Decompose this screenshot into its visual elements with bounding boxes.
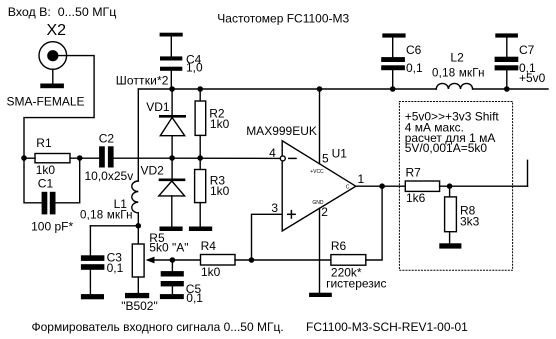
power rail right of L2 [473, 88, 548, 90]
node R8 tap [447, 183, 453, 189]
svg-text:100 pF*: 100 pF* [31, 219, 73, 233]
ground R5 [125, 293, 149, 298]
resistor R6 [331, 255, 366, 266]
svg-text:5k0 "A": 5k0 "A" [149, 241, 188, 255]
svg-text:GND: GND [312, 200, 324, 206]
node rail/pin5 [317, 86, 323, 92]
wiper arrow R5 [146, 257, 155, 264]
svg-text:L2: L2 [450, 50, 464, 64]
resistor R3 [199, 158, 201, 170]
ground C3 [81, 294, 104, 299]
svg-text:10,0x25v: 10,0x25v [85, 169, 134, 183]
svg-text:SMA-FEMALE: SMA-FEMALE [7, 95, 85, 109]
svg-text:0,18 мкГн: 0,18 мкГн [432, 67, 485, 79]
capacitor C7 [495, 33, 518, 37]
svg-text:5V/0,001A=5k0: 5V/0,001A=5k0 [405, 141, 488, 155]
title heading [217, 12, 349, 26]
dashed info box [399, 102, 512, 271]
svg-text:+VCC: +VCC [310, 169, 324, 175]
svg-text:VD1: VD1 [146, 100, 170, 114]
ground top C4 [160, 33, 183, 37]
node signal/VD [169, 155, 175, 161]
output stub up [527, 160, 529, 186]
label Schottky [116, 74, 169, 88]
svg-text:C2: C2 [99, 131, 115, 145]
label SMA-FEMALE [7, 95, 85, 109]
svg-text:3k3: 3k3 [460, 215, 480, 229]
wire R1 right to C2 [70, 157, 99, 159]
node rail/VD1 [169, 86, 175, 92]
resistor R2 [199, 89, 201, 101]
op-amp U1 [246, 124, 317, 138]
svg-text:1k0: 1k0 [201, 265, 221, 279]
svg-text:5: 5 [322, 152, 329, 166]
svg-text:Формирователь входного сигнала: Формирователь входного сигнала 0...50 МГ… [32, 320, 284, 334]
wire R6 right up to output [366, 186, 382, 260]
wire C1 left [24, 158, 42, 203]
wire +5v vertical to L1 [137, 89, 139, 181]
svg-text:1k0: 1k0 [210, 117, 230, 131]
capacitor C3 [89, 226, 91, 256]
inductor L2 [436, 83, 472, 89]
pin5 wire [319, 89, 321, 164]
svg-text:Шоттки*2: Шоттки*2 [116, 74, 169, 88]
title input label [8, 5, 117, 19]
wire node to pot [137, 226, 139, 244]
node after R1 [77, 155, 83, 161]
label B502 [121, 299, 158, 313]
diode VD2 [171, 158, 173, 181]
svg-text:R4: R4 [201, 239, 217, 253]
resistor R1 [35, 154, 70, 163]
node output/R6 [379, 183, 385, 189]
node rail/C7 [504, 86, 510, 92]
inductor L1 [132, 181, 139, 213]
node C5 tap [170, 257, 176, 263]
connector X2 label [47, 22, 67, 39]
wire L1 to node [137, 213, 139, 226]
svg-text:MAX999EUK: MAX999EUK [246, 124, 317, 138]
potentiometer R5 [132, 244, 144, 277]
capacitor C4 [170, 37, 172, 57]
wire C2 to VD junction [114, 157, 173, 159]
wire signal to pin4 [172, 157, 280, 159]
wire X2 stem [52, 69, 54, 83]
svg-text:R7: R7 [406, 166, 422, 180]
svg-text:FC1100-M3-SCH-REV1-00-01: FC1100-M3-SCH-REV1-00-01 [306, 320, 468, 334]
bottom captions [32, 320, 469, 334]
node rail/C6 [390, 86, 396, 92]
ground pin2 [309, 293, 332, 297]
capacitor C2 [99, 146, 105, 167]
capacitor C6 [382, 33, 405, 37]
svg-text:Вход В: 0...50 МГц: Вход В: 0...50 МГц [8, 5, 117, 19]
node pin3 tap [249, 257, 255, 263]
svg-text:C7: C7 [519, 43, 535, 57]
wire R4 to R6 [235, 259, 331, 261]
wire to pin3 [252, 214, 283, 260]
pin labels [269, 146, 364, 219]
capacitor C1 [42, 192, 48, 215]
wire output [356, 185, 406, 187]
connector X2 [39, 42, 67, 70]
svg-text:1k0: 1k0 [36, 163, 56, 177]
resistor R8 [449, 186, 451, 197]
resistor R7 [405, 181, 439, 191]
wire node to C3 [90, 225, 138, 227]
svg-text:VD2: VD2 [141, 164, 165, 178]
resistor R4 [201, 255, 236, 266]
node rail/R2 [197, 86, 203, 92]
svg-text:гистерезис: гистерезис [326, 277, 386, 291]
svg-text:0,18 мкГн: 0,18 мкГн [80, 209, 133, 221]
svg-text:C1: C1 [38, 176, 54, 190]
svg-text:1,0: 1,0 [186, 61, 203, 75]
diode VD1 [171, 89, 173, 118]
ground X2 [40, 84, 64, 89]
svg-text:X2: X2 [47, 22, 67, 39]
plus sign [288, 213, 295, 215]
capacitor C5 [171, 260, 173, 271]
minus sign [289, 157, 296, 159]
svg-text:+5v0: +5v0 [519, 71, 546, 85]
svg-text:4: 4 [269, 146, 276, 160]
svg-text:R6: R6 [331, 239, 347, 253]
node signal/R2R3 [197, 155, 203, 161]
svg-text:Частотомер FC1100-M3: Частотомер FC1100-M3 [217, 12, 349, 26]
ground VD2 [160, 227, 183, 232]
svg-text:3: 3 [271, 201, 278, 215]
ground R3 [189, 227, 212, 232]
node left of R1 [21, 155, 27, 161]
svg-text:R1: R1 [36, 136, 52, 150]
wire R1 left [24, 157, 35, 159]
wire X2 to R1 node [24, 56, 94, 158]
svg-text:1k6: 1k6 [406, 191, 426, 205]
svg-text:"B502": "B502" [121, 299, 158, 313]
node L1/C3/R5 [136, 223, 142, 229]
pin4 bubble [280, 156, 285, 161]
svg-text:1: 1 [358, 172, 365, 186]
svg-text:0,1: 0,1 [406, 61, 423, 75]
ground R8 [439, 243, 461, 248]
pin2 wire [319, 208, 321, 293]
ground C5 [160, 294, 184, 299]
svg-text:2: 2 [321, 205, 328, 219]
wire C1 right [56, 158, 80, 203]
svg-text:U1: U1 [332, 147, 348, 161]
wire R7 right [440, 185, 528, 187]
svg-text:1k0: 1k0 [210, 184, 230, 198]
svg-text:0,1: 0,1 [186, 291, 203, 305]
svg-text:0,1: 0,1 [107, 261, 124, 275]
svg-text:C6: C6 [406, 43, 422, 57]
power rail +5v [138, 88, 436, 90]
svg-text:C: C [346, 184, 350, 190]
